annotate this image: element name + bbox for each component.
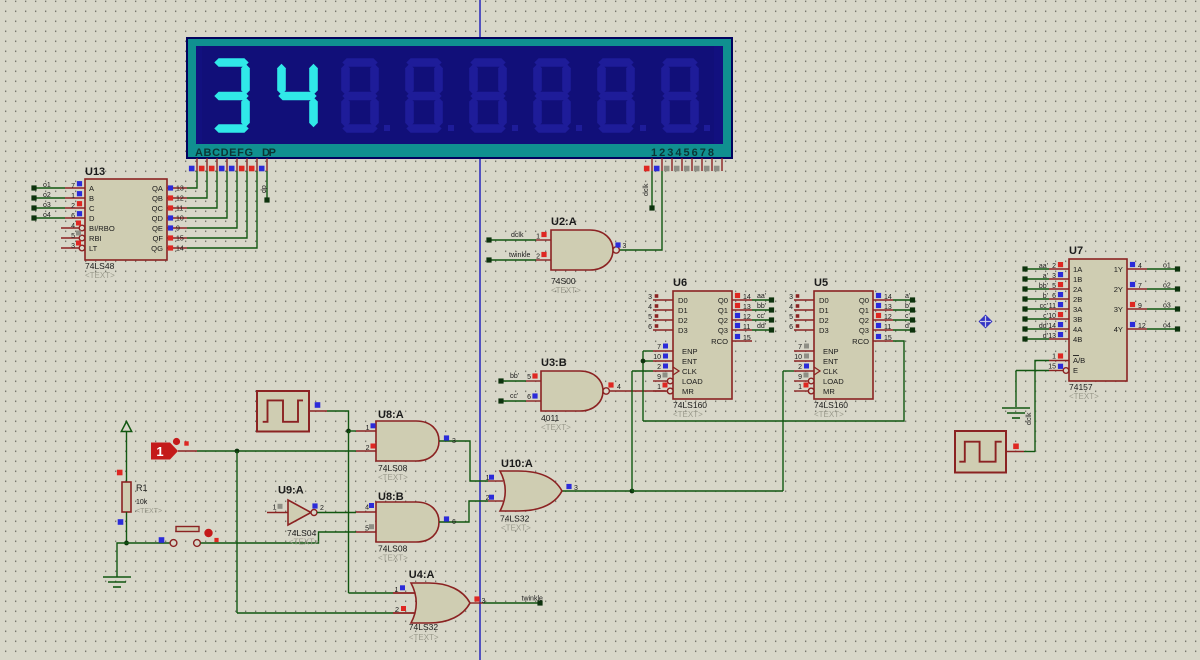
svg-text:bb': bb' (757, 303, 766, 310)
clock generator (left) (257, 391, 309, 432)
svg-text:9: 9 (798, 374, 802, 381)
svg-text:U3:B: U3:B (541, 357, 567, 369)
svg-text:dd': dd' (757, 323, 766, 330)
svg-text:74LS160: 74LS160 (814, 400, 848, 410)
svg-text:10k: 10k (136, 499, 148, 506)
svg-text:D2: D2 (678, 316, 688, 325)
ground left (124, 541, 129, 546)
svg-text:aa': aa' (1039, 263, 1048, 270)
svg-text:13: 13 (884, 304, 892, 311)
svg-text:Q0: Q0 (859, 296, 869, 305)
U7 A/B select wire from dclk (1035, 361, 1049, 452)
svg-text:12: 12 (884, 314, 892, 321)
IC U7 74157 multiplexer (1069, 259, 1127, 381)
svg-text:6: 6 (527, 394, 531, 401)
svg-text:RBI: RBI (89, 234, 102, 243)
svg-text:d': d' (1043, 333, 1048, 340)
svg-text:D0: D0 (819, 296, 829, 305)
svg-text:cc': cc' (510, 393, 518, 400)
svg-text:D0: D0 (678, 296, 688, 305)
svg-text:12345678: 12345678 (651, 147, 715, 159)
svg-text:o4: o4 (43, 212, 51, 219)
svg-text:2: 2 (486, 495, 490, 502)
svg-text:13: 13 (176, 186, 184, 193)
wire button to U8:B pin5 (201, 532, 357, 543)
svg-text:12: 12 (743, 314, 751, 321)
svg-text:R1: R1 (136, 483, 148, 493)
gate U10:A 74LS32 OR (500, 471, 562, 511)
svg-text:3: 3 (574, 485, 578, 492)
display segment pins A-G,DP (196, 158, 198, 171)
svg-text:ABCDEFG: ABCDEFG (195, 147, 255, 159)
svg-text:3B: 3B (1073, 315, 1082, 324)
svg-text:<TEXT>: <TEXT> (551, 286, 581, 295)
svg-text:3: 3 (452, 438, 456, 445)
display dim digit 8 (662, 58, 697, 67)
U6 LOAD MR stubs (653, 380, 667, 382)
svg-text:dclk: dclk (511, 232, 524, 239)
svg-text:3: 3 (71, 243, 75, 250)
svg-text:cc': cc' (1040, 303, 1048, 310)
svg-text:<TEXT>: <TEXT> (378, 473, 408, 482)
svg-text:5: 5 (71, 233, 75, 240)
svg-text:MR: MR (823, 387, 835, 396)
svg-text:MR: MR (682, 387, 694, 396)
ground near U7 (1002, 407, 1030, 409)
U6 outputs Q0-Q3 to aa'-dd' (732, 299, 752, 301)
svg-text:3Y: 3Y (1114, 305, 1123, 314)
svg-text:<TEXT>: <TEXT> (289, 538, 319, 547)
svg-text:D: D (89, 214, 95, 223)
wire clock net U10:A to U6 and U5 CLK (562, 490, 632, 492)
sheet divider line (479, 0, 481, 660)
svg-text:o1: o1 (1163, 263, 1171, 270)
svg-text:2: 2 (71, 203, 75, 210)
svg-text:o1: o1 (43, 182, 51, 189)
svg-text:2Y: 2Y (1114, 285, 1123, 294)
svg-text:U7: U7 (1069, 245, 1083, 257)
wires display segments to U13 outputs (187, 171, 197, 188)
svg-text:3: 3 (623, 243, 627, 250)
IC U6 74LS160 (673, 291, 732, 399)
svg-text:C: C (89, 204, 95, 213)
U2:A output pin3 (615, 242, 620, 247)
svg-text:11: 11 (743, 324, 750, 331)
svg-text:U9:A: U9:A (278, 485, 304, 497)
U5 MR bubble (808, 388, 814, 394)
svg-text:7: 7 (71, 183, 75, 190)
svg-text:13: 13 (743, 304, 751, 311)
U6 ENP/ENT wires (653, 350, 673, 352)
svg-text:Q2: Q2 (718, 316, 728, 325)
svg-text:4: 4 (365, 505, 369, 512)
svg-text:1: 1 (366, 425, 370, 432)
svg-text:QD: QD (152, 214, 164, 223)
svg-text:aa': aa' (757, 293, 766, 300)
svg-text:1A: 1A (1073, 265, 1083, 274)
svg-text:QB: QB (152, 194, 163, 203)
svg-text:15: 15 (176, 236, 184, 243)
svg-text:3: 3 (1052, 273, 1056, 280)
svg-text:Q1: Q1 (718, 306, 728, 315)
svg-text:10: 10 (653, 354, 661, 361)
U8:A output wire to U10:A pin1 (439, 441, 488, 481)
svg-text:5: 5 (527, 374, 531, 381)
svg-text:3: 3 (482, 598, 486, 605)
svg-text:6: 6 (648, 324, 652, 331)
svg-text:2: 2 (366, 445, 370, 452)
wire logicstate to U8:A pin2 and U4:A pin2 (178, 450, 197, 452)
svg-text:twinkle: twinkle (522, 596, 544, 603)
svg-text:RCO: RCO (711, 337, 728, 346)
svg-text:d': d' (905, 323, 910, 330)
svg-text:6: 6 (452, 519, 456, 526)
display digit 3 (lit) (214, 58, 248, 67)
clock generator dclk (right) (955, 431, 1006, 473)
svg-text:74LS04: 74LS04 (287, 528, 317, 538)
svg-text:Q3: Q3 (859, 326, 869, 335)
svg-text:2: 2 (798, 364, 802, 371)
wire twinkle to U2:A pin2 (489, 259, 536, 261)
svg-text:15: 15 (743, 335, 751, 342)
svg-text:dclk: dclk (1026, 412, 1033, 425)
gate U4:A 74LS32 OR (411, 583, 470, 623)
svg-text:14: 14 (743, 294, 751, 301)
svg-text:1: 1 (273, 505, 277, 512)
display dim digit 8 (534, 58, 569, 67)
svg-text:1: 1 (71, 193, 75, 200)
svg-text:Q1: Q1 (859, 306, 869, 315)
svg-text:<TEXT>: <TEXT> (673, 410, 703, 419)
svg-text:QE: QE (152, 224, 163, 233)
U7 outputs 1Y-4Y to o1-o4 (1127, 268, 1147, 270)
svg-text:1B: 1B (1073, 275, 1082, 284)
svg-text:4: 4 (71, 223, 75, 230)
wire bb' to U3:B pin5 (501, 380, 526, 382)
svg-text:11: 11 (176, 206, 183, 213)
svg-text:U8:A: U8:A (378, 409, 404, 421)
svg-text:<TEXT>: <TEXT> (136, 508, 162, 515)
svg-text:LOAD: LOAD (823, 377, 844, 386)
svg-text:bb': bb' (510, 373, 519, 380)
svg-text:4: 4 (789, 304, 793, 311)
svg-text:dd': dd' (1039, 323, 1048, 330)
svg-text:BI/RBO: BI/RBO (89, 224, 115, 233)
svg-text:11: 11 (884, 324, 891, 331)
svg-text:D2: D2 (819, 316, 829, 325)
U13 input pins A-D with terminals o1-o4 (65, 187, 85, 189)
svg-text:D3: D3 (819, 326, 829, 335)
svg-text:QA: QA (152, 184, 164, 193)
U13 pins BI/RBO RBI LT (61, 227, 79, 229)
svg-text:1: 1 (536, 234, 540, 241)
svg-text:74S00: 74S00 (551, 276, 576, 286)
svg-text:5: 5 (789, 314, 793, 321)
display dim digit 8 (598, 58, 633, 67)
svg-text:LT: LT (89, 244, 98, 253)
display digit select pins 1-8 (651, 158, 653, 171)
svg-text:o3: o3 (43, 202, 51, 209)
svg-text:6: 6 (789, 324, 793, 331)
svg-text:QG: QG (151, 244, 163, 253)
svg-text:b': b' (1043, 293, 1048, 300)
svg-text:74LS32: 74LS32 (409, 622, 439, 632)
display dim digit 8 (406, 58, 441, 67)
U4:A input stubs (393, 592, 415, 594)
svg-text:9: 9 (1138, 303, 1142, 310)
svg-text:E: E (1073, 366, 1078, 375)
svg-text:CLK: CLK (823, 367, 838, 376)
svg-text:2: 2 (657, 364, 661, 371)
svg-text:a': a' (1043, 273, 1048, 280)
svg-text:2A: 2A (1073, 285, 1083, 294)
svg-text:U10:A: U10:A (501, 458, 533, 470)
gate U8:A 74LS08 AND (376, 421, 439, 461)
svg-text:ENT: ENT (682, 357, 698, 366)
svg-text:2: 2 (536, 254, 540, 261)
svg-text:4B: 4B (1073, 335, 1082, 344)
wire dp net (266, 171, 268, 199)
svg-text:QF: QF (152, 234, 163, 243)
svg-text:4A: 4A (1073, 325, 1083, 334)
svg-text:2B: 2B (1073, 295, 1082, 304)
svg-text:1: 1 (1052, 354, 1056, 361)
svg-text:9: 9 (657, 374, 661, 381)
wire display pin2 to U2:A output (619, 171, 663, 250)
U8:B output wire to U10:A pin2 (439, 501, 488, 522)
wire cc' to U3:B pin6 (501, 400, 526, 402)
svg-text:12: 12 (1138, 323, 1146, 330)
resistor R1 10k (117, 470, 123, 476)
svg-text:D1: D1 (819, 306, 829, 315)
gate U2:A 74S00 NAND (551, 230, 613, 270)
svg-text:U8:B: U8:B (378, 491, 404, 503)
svg-text:1: 1 (156, 444, 163, 459)
svg-text:U4:A: U4:A (409, 569, 435, 581)
svg-text:6: 6 (71, 213, 75, 220)
svg-text:<TEXT>: <TEXT> (541, 423, 571, 432)
U6 RCO stub (732, 340, 752, 342)
U5 data input stubs D0-D3 (794, 299, 814, 301)
svg-text:7: 7 (657, 344, 661, 351)
U9:A output wire to U8:B pin4 (317, 512, 356, 514)
origin marker (979, 315, 993, 329)
U3:B output pin4 wire to U6 MR (609, 390, 665, 392)
svg-text:o3: o3 (1163, 303, 1171, 310)
U7 E enable wire to ground (1063, 368, 1069, 374)
svg-text:o4: o4 (1163, 323, 1171, 330)
svg-text:10: 10 (1048, 313, 1056, 320)
svg-text:CLK: CLK (682, 367, 697, 376)
svg-text:74LS160: 74LS160 (673, 400, 707, 410)
svg-text:D1: D1 (678, 306, 688, 315)
svg-text:Q3: Q3 (718, 326, 728, 335)
svg-text:dp: dp (261, 185, 268, 193)
svg-text:<TEXT>: <TEXT> (85, 271, 115, 280)
svg-text:74157: 74157 (1069, 382, 1093, 392)
svg-text:14: 14 (1048, 323, 1056, 330)
svg-text:2: 2 (320, 505, 324, 512)
U5 CLK wire (794, 370, 814, 372)
push button (127, 542, 171, 544)
svg-text:7: 7 (798, 344, 802, 351)
svg-text:74LS08: 74LS08 (378, 463, 408, 473)
svg-text:o2: o2 (1163, 283, 1171, 290)
svg-text:D3: D3 (678, 326, 688, 335)
svg-text:QC: QC (152, 204, 164, 213)
svg-text:DP: DP (262, 147, 278, 159)
gate U3:B 4011 NAND (541, 371, 603, 411)
svg-text:bb': bb' (1039, 283, 1048, 290)
svg-text:1: 1 (798, 384, 802, 391)
U5 outputs Q0-Q3 to a'-d' (873, 299, 893, 301)
svg-text:10: 10 (176, 216, 184, 223)
U7 input wires aa'..d' (1024, 268, 1049, 270)
U6 MR bubble (667, 388, 673, 394)
svg-text:<TEXT>: <TEXT> (1069, 392, 1099, 401)
wire dclk to U2:A pin1 (489, 239, 536, 241)
U4:A output wire twinkle (470, 602, 483, 604)
svg-text:<TEXT>: <TEXT> (378, 554, 408, 563)
svg-text:twinkle: twinkle (509, 252, 531, 259)
svg-text:U2:A: U2:A (551, 216, 577, 228)
svg-text:5: 5 (1052, 283, 1056, 290)
svg-text:4: 4 (617, 384, 621, 391)
svg-text:B: B (89, 194, 94, 203)
svg-text:cc': cc' (757, 313, 765, 320)
gate U8:B 74LS08 AND (376, 502, 439, 542)
svg-text:3: 3 (648, 294, 652, 301)
svg-text:Q0: Q0 (718, 296, 728, 305)
svg-text:3A: 3A (1073, 305, 1083, 314)
U13 output pins QA-QG (167, 187, 187, 189)
U6 CLK wire (653, 370, 673, 372)
logic state 1 (151, 443, 178, 460)
svg-text:10: 10 (794, 354, 802, 361)
svg-text:ENP: ENP (682, 347, 698, 356)
svg-text:74LS08: 74LS08 (378, 544, 408, 554)
svg-text:1Y: 1Y (1114, 265, 1123, 274)
display dim digit 8 (342, 58, 377, 67)
svg-text:c': c' (905, 313, 910, 320)
svg-text:RCO: RCO (852, 337, 869, 346)
svg-text:15: 15 (884, 335, 892, 342)
svg-text:2: 2 (1052, 263, 1056, 270)
svg-text:4: 4 (648, 304, 652, 311)
svg-text:ENT: ENT (823, 357, 839, 366)
svg-text:b': b' (905, 303, 910, 310)
svg-text:Q2: Q2 (859, 316, 869, 325)
svg-text:<TEXT>: <TEXT> (409, 633, 439, 642)
svg-text:7: 7 (1138, 283, 1142, 290)
svg-text:o2: o2 (43, 192, 51, 199)
svg-text:11: 11 (1049, 303, 1056, 310)
svg-text:5: 5 (365, 526, 369, 533)
svg-text:13: 13 (1048, 333, 1056, 340)
svg-text:12: 12 (176, 196, 184, 203)
svg-text:74LS32: 74LS32 (500, 514, 530, 524)
svg-text:5: 5 (648, 314, 652, 321)
svg-text:<TEXT>: <TEXT> (814, 410, 844, 419)
svg-text:14: 14 (884, 294, 892, 301)
svg-text:U5: U5 (814, 277, 828, 289)
U5 LOAD MR stubs (794, 380, 808, 382)
svg-text:LOAD: LOAD (682, 377, 703, 386)
svg-text:4: 4 (1138, 263, 1142, 270)
U9:A input stub pin1 (267, 512, 288, 514)
power terminal (121, 422, 131, 432)
svg-text:6: 6 (1052, 293, 1056, 300)
svg-text:U6: U6 (673, 277, 687, 289)
svg-text:4011: 4011 (541, 413, 560, 423)
svg-text:dclk: dclk (643, 183, 650, 196)
svg-text:A/B: A/B (1073, 356, 1085, 365)
wire clock to U8:A pin1 and U4:A pin1 (327, 411, 349, 431)
svg-text:3: 3 (789, 294, 793, 301)
display digit 4 (lit) (309, 64, 318, 95)
U5 ENP ENT stubs (794, 350, 814, 352)
svg-text:14: 14 (176, 246, 184, 253)
svg-text:1: 1 (486, 475, 490, 482)
IC U5 74LS160 (814, 291, 873, 399)
svg-text:a': a' (905, 293, 910, 300)
U6 data input stubs D0-D3 (653, 299, 673, 301)
wire dclk terminal (651, 171, 653, 208)
svg-text:15: 15 (1048, 364, 1056, 371)
svg-text:1: 1 (657, 384, 661, 391)
gate U9:A 74LS04 inverter (288, 500, 311, 525)
display dim digit 8 (470, 58, 505, 67)
svg-text:U13: U13 (85, 166, 105, 178)
U10:A output pin3 (566, 484, 571, 489)
svg-text:<TEXT>: <TEXT> (501, 524, 531, 533)
svg-text:74LS48: 74LS48 (85, 261, 115, 271)
IC U13 74LS48 (85, 179, 167, 260)
svg-text:4Y: 4Y (1114, 325, 1123, 334)
svg-text:ENP: ENP (823, 347, 839, 356)
svg-text:9: 9 (176, 226, 180, 233)
7-segment multiplexed display (187, 38, 732, 158)
U5 RCO wire cascade to U6 ENP/ENT (873, 340, 893, 342)
